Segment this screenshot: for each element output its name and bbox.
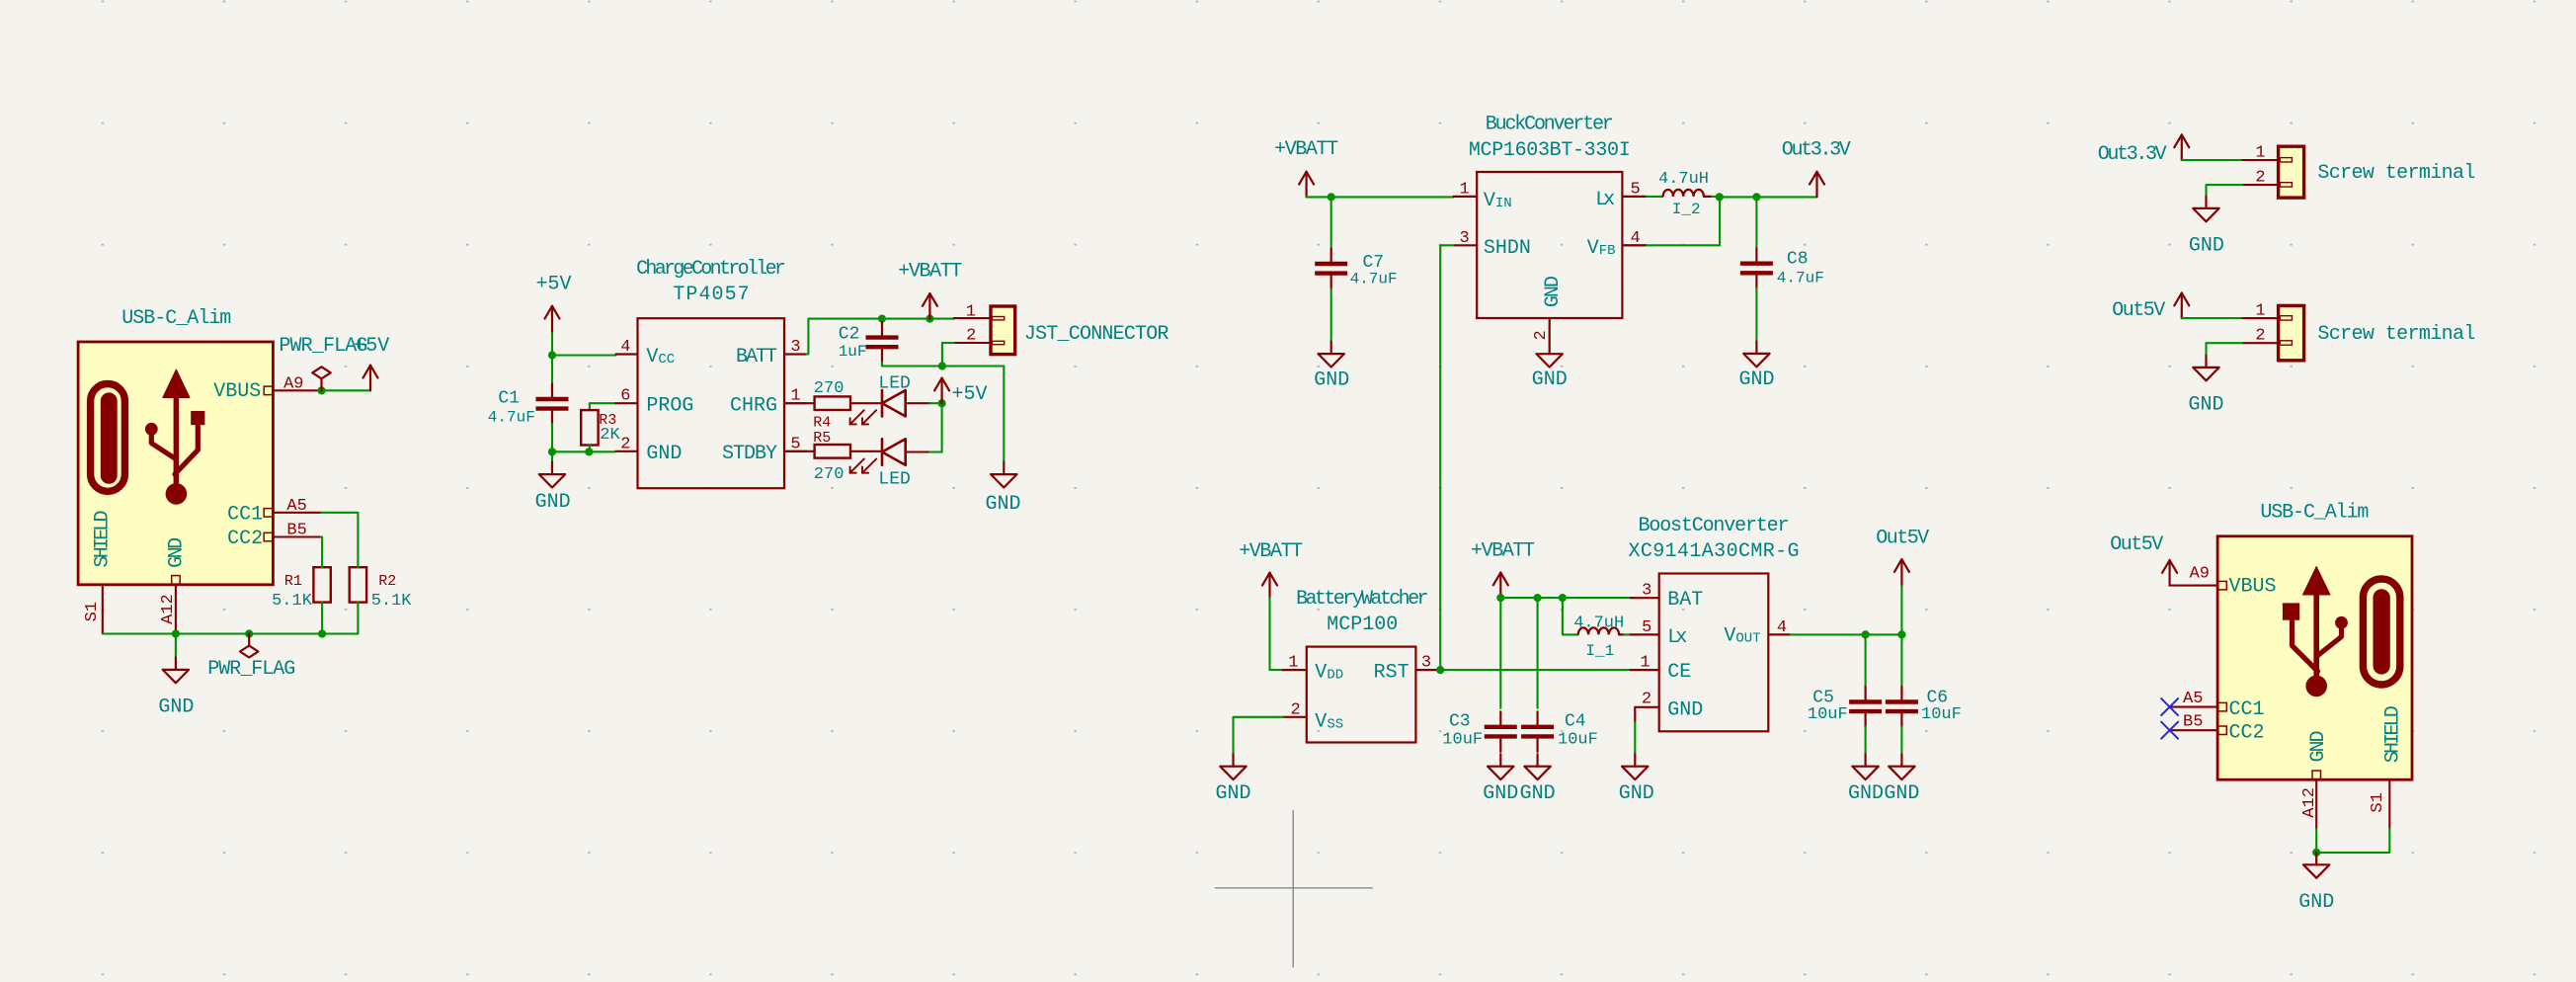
pin label A5 (right) <box>2183 690 2203 708</box>
ground GND (terminal 2) <box>2188 356 2223 417</box>
svg-text:2K: 2K <box>600 426 620 445</box>
wire Out3.3V to terminal1 pin1 <box>2182 159 2279 161</box>
junction C4 node <box>1534 594 1542 602</box>
svg-text:CC2: CC2 <box>227 528 263 550</box>
svg-text:+VBATT: +VBATT <box>1274 138 1338 161</box>
ground GND (JST) <box>985 462 1020 516</box>
pin A12 stub (right) <box>2315 779 2317 829</box>
capacitor C2 1uF <box>839 319 899 367</box>
ground GND (C7) <box>1314 342 1349 392</box>
svg-text:B5: B5 <box>286 522 306 540</box>
wire JST rail to GND <box>1003 367 1005 462</box>
svg-text:Screw terminal: Screw terminal <box>2317 323 2475 346</box>
pin label S1 (right) <box>2369 792 2387 812</box>
svg-text:C3: C3 <box>1449 712 1471 732</box>
svg-text:2: 2 <box>1642 690 1651 708</box>
svg-text:2: 2 <box>1532 330 1551 340</box>
junction R3 bottom node <box>585 448 593 455</box>
ground GND (C8) <box>1738 342 1774 392</box>
svg-text:Lx: Lx <box>1667 626 1687 649</box>
wire C1 to GND <box>551 451 553 461</box>
svg-text:CHRG: CHRG <box>730 394 777 417</box>
svg-text:BATT: BATT <box>736 346 777 368</box>
svg-text:5: 5 <box>1642 618 1651 637</box>
svg-text:2: 2 <box>2255 169 2265 188</box>
wire A12 to GND (right) <box>2315 829 2317 853</box>
svg-text:GND: GND <box>1667 698 1703 721</box>
power symbol Out5V (boost) <box>1876 527 1929 634</box>
svg-text:GND: GND <box>1520 782 1556 805</box>
svg-text:GND: GND <box>1483 782 1518 805</box>
svg-text:SHIELD: SHIELD <box>2382 705 2405 763</box>
svg-text:+5V: +5V <box>952 383 988 406</box>
svg-text:GND: GND <box>158 696 194 719</box>
capacitor C8 4.7uF <box>1740 197 1824 341</box>
svg-text:C4: C4 <box>1565 712 1586 732</box>
svg-text:10uF: 10uF <box>1921 705 1962 724</box>
svg-text:CC1: CC1 <box>227 503 263 526</box>
svg-text:GND: GND <box>646 443 682 465</box>
svg-text:3: 3 <box>1421 654 1431 673</box>
svg-text:1uF: 1uF <box>839 343 867 361</box>
svg-text:S1: S1 <box>83 602 102 621</box>
svg-text:RST: RST <box>1374 662 1409 685</box>
wire CC1 to R2 <box>273 513 358 550</box>
wire SHDN to CE (long) <box>1440 245 1453 670</box>
pin label B5 (right) <box>2183 713 2203 732</box>
svg-text:R5: R5 <box>813 430 831 447</box>
power symbol Out3.3V (buck) <box>1782 138 1851 197</box>
junction L1 node <box>1559 594 1567 602</box>
svg-text:GND: GND <box>1215 782 1250 805</box>
wire CC2 to R1 <box>273 537 322 550</box>
no-connect CC1 (right) <box>2161 698 2217 715</box>
svg-text:GND: GND <box>1619 782 1654 805</box>
svg-text:GND: GND <box>1314 368 1349 391</box>
svg-text:CC1: CC1 <box>2229 698 2265 721</box>
svg-text:5.1K: 5.1K <box>272 592 313 611</box>
crosshair marker <box>1215 810 1373 968</box>
junction A12 node <box>172 629 180 637</box>
LED D1 <box>850 374 942 425</box>
svg-text:USB-C_Alim: USB-C_Alim <box>121 307 231 330</box>
junction VBUS node <box>317 386 325 394</box>
wire +VBATT to VIN <box>1307 196 1454 198</box>
pin label A12 (left) <box>159 594 178 624</box>
svg-text:A5: A5 <box>2183 690 2203 708</box>
svg-text:+5V: +5V <box>535 273 571 295</box>
svg-text:BoostConverter: BoostConverter <box>1639 515 1790 537</box>
junction C8 node <box>1752 193 1760 201</box>
inductor I_1 4.7uH <box>1563 598 1631 660</box>
ground GND (C5) <box>1848 754 1884 805</box>
capacitor C5 10uF <box>1808 634 1882 754</box>
svg-text:S1: S1 <box>2369 792 2387 812</box>
svg-text:R4: R4 <box>813 415 831 432</box>
resistor R2 5.1K <box>350 549 413 633</box>
svg-text:+VBATT: +VBATT <box>1239 540 1303 563</box>
power symbol Out5V (terminal 2) <box>2112 293 2189 323</box>
svg-text:3: 3 <box>790 338 800 357</box>
svg-text:4.7uF: 4.7uF <box>1777 270 1824 287</box>
wire terminal1 pin2 to GND <box>2207 185 2279 196</box>
svg-text:4.7uF: 4.7uF <box>488 409 535 427</box>
svg-text:2: 2 <box>966 327 976 346</box>
IC U4 BuckConverter MCP1603BT-330I <box>1453 114 1646 342</box>
resistor R3 2K <box>581 410 620 451</box>
wire VFB feedback <box>1622 197 1720 245</box>
svg-text:+5V: +5V <box>354 335 389 358</box>
wire +5V rail to Vcc <box>552 354 616 356</box>
power symbol +VBATT (JST) <box>898 261 962 319</box>
capacitor C4 10uF <box>1521 598 1598 752</box>
svg-text:SHIELD: SHIELD <box>91 511 114 568</box>
svg-text:BAT: BAT <box>1667 589 1703 612</box>
ground GND (USB-C left) <box>158 658 194 719</box>
power symbol Out5V (USB-C right) <box>2110 533 2177 586</box>
svg-text:A5: A5 <box>286 497 306 516</box>
pin label A9 (right VBUS) <box>2190 564 2210 583</box>
svg-text:TP4057: TP4057 <box>673 284 749 306</box>
wire L2 to C8/Out3.3V <box>1720 196 1817 198</box>
svg-text:270: 270 <box>814 379 845 398</box>
junction C5 node <box>1862 630 1870 638</box>
wire +VBATT to VDD <box>1270 598 1283 670</box>
svg-text:1: 1 <box>1288 654 1298 673</box>
ground GND (buck pin2) <box>1532 342 1568 391</box>
svg-text:1: 1 <box>1640 654 1650 673</box>
svg-text:10uF: 10uF <box>1442 731 1483 750</box>
connector Screw terminal 1 <box>2255 144 2475 199</box>
IC U1 BatteryWatcher MCP100 <box>1283 588 1438 743</box>
LED D2 <box>850 439 942 489</box>
svg-text:A12: A12 <box>2300 787 2319 818</box>
svg-text:Screw terminal: Screw terminal <box>2317 162 2475 185</box>
svg-text:BuckConverter: BuckConverter <box>1486 114 1614 136</box>
svg-text:2: 2 <box>620 435 630 453</box>
svg-text:CC2: CC2 <box>2229 721 2265 744</box>
capacitor C7 4.7uF <box>1315 197 1397 341</box>
junction C7 node <box>1328 193 1335 201</box>
USB trident logo (right) <box>2283 567 2399 697</box>
ground GND (terminal 1) <box>2189 197 2224 258</box>
svg-text:GND: GND <box>985 493 1020 516</box>
svg-text:B5: B5 <box>2183 713 2203 732</box>
svg-text:MCP1603BT-330I: MCP1603BT-330I <box>1469 139 1631 162</box>
svg-text:4: 4 <box>620 338 630 357</box>
svg-text:4.7uF: 4.7uF <box>1350 270 1398 287</box>
pin label A9 (left VBUS) <box>283 375 303 394</box>
capacitor C6 10uF <box>1886 634 1962 754</box>
wire VOUT to Out5V <box>1768 618 1901 637</box>
IC U3 BoostConverter XC9141A30CMR-G <box>1629 515 1800 731</box>
svg-text:+VBATT: +VBATT <box>898 261 962 284</box>
power symbol +5V (LEDs) <box>934 378 987 406</box>
svg-text:STDBY: STDBY <box>722 443 777 465</box>
ground GND (VSS) <box>1215 754 1250 805</box>
svg-text:270: 270 <box>814 465 845 484</box>
junction C2 top node <box>878 315 886 323</box>
svg-text:XC9141A30CMR-G: XC9141A30CMR-G <box>1629 540 1800 563</box>
wire PROG to R3 <box>590 403 616 410</box>
svg-text:LED: LED <box>878 374 910 394</box>
wire A12 to GND <box>175 634 177 658</box>
power symbol +VBATT (MCP100) <box>1239 540 1303 598</box>
ground GND (C3) <box>1483 754 1518 805</box>
IC U2 ChargeController TP4057 <box>616 258 807 488</box>
svg-text:GND: GND <box>2298 891 2334 914</box>
svg-text:A9: A9 <box>283 375 303 394</box>
ground GND (boost pin2) <box>1619 754 1654 805</box>
svg-text:MCP100: MCP100 <box>1327 614 1398 636</box>
svg-text:GND: GND <box>1848 782 1884 805</box>
svg-text:GND: GND <box>1532 368 1568 391</box>
power symbol +VBATT (buck input) <box>1274 138 1338 197</box>
wire GND rail <box>552 450 615 452</box>
pin label B5 (left CC2) <box>286 522 306 540</box>
svg-text:10uF: 10uF <box>1808 705 1848 724</box>
power flag PWR_FLAG (GND bus) <box>207 634 295 682</box>
svg-text:BatteryWatcher: BatteryWatcher <box>1296 588 1428 611</box>
wire ground bus (USB-C left) <box>103 632 359 634</box>
pin A12 GND stub (left) <box>175 585 177 633</box>
wire S1 to GND (right) <box>2316 829 2389 853</box>
junction +VBATT node (JST) <box>926 315 933 323</box>
power flag PWR_FLAG (VBUS) <box>279 335 367 390</box>
pin label A12 (right) <box>2300 787 2319 818</box>
svg-text:GND: GND <box>1542 276 1565 307</box>
svg-text:ChargeController: ChargeController <box>636 258 786 281</box>
svg-text:PWR_FLAG: PWR_FLAG <box>207 658 295 681</box>
svg-text:GND: GND <box>1884 782 1919 805</box>
svg-text:GND: GND <box>166 537 189 568</box>
capacitor C1 4.7uF <box>488 356 569 452</box>
USB trident logo (left) <box>91 369 204 505</box>
junction R1 node <box>318 629 326 637</box>
wire C2 bottom rail <box>882 365 1004 367</box>
svg-text:2: 2 <box>2255 327 2265 346</box>
svg-text:R2: R2 <box>378 573 396 590</box>
no-connect CC2 (right) <box>2161 722 2217 739</box>
svg-text:Out5V: Out5V <box>2112 299 2165 322</box>
svg-text:GND: GND <box>1738 368 1774 391</box>
wire LED cathodes to +5V <box>941 403 943 451</box>
svg-text:4.7uH: 4.7uH <box>1573 614 1624 633</box>
wire terminal2 pin2 to GND <box>2207 343 2279 355</box>
connector J1 USB-C_Alim (left) <box>78 307 273 585</box>
svg-text:I_2: I_2 <box>1672 201 1701 218</box>
junction C6/Out5V node <box>1897 630 1905 638</box>
wire BATT to C2/JST <box>806 319 953 355</box>
wire JST pin2 to GND rail <box>942 343 954 367</box>
svg-text:Out5V: Out5V <box>2110 533 2163 556</box>
inductor I_2 4.7uH <box>1647 170 1720 218</box>
svg-text:Out3.3V: Out3.3V <box>2098 143 2167 166</box>
svg-text:2: 2 <box>1290 700 1300 719</box>
svg-text:1: 1 <box>1459 180 1469 199</box>
svg-text:1: 1 <box>2255 301 2265 320</box>
wire boost GND pin to ground <box>1634 722 1636 754</box>
svg-text:C2: C2 <box>839 325 860 345</box>
junction LED node <box>938 399 946 407</box>
power symbol +5V (VBUS) <box>354 335 389 390</box>
junction C1 bottom node <box>548 448 556 455</box>
svg-text:VBUS: VBUS <box>213 380 261 403</box>
svg-text:Lx: Lx <box>1595 189 1615 211</box>
power symbol +5V (C1/Vcc) <box>535 273 571 355</box>
ground GND (C6) <box>1884 754 1919 805</box>
svg-text:5.1K: 5.1K <box>371 592 413 611</box>
connector JST_CONNECTOR <box>954 303 1169 355</box>
svg-text:3: 3 <box>1459 229 1469 248</box>
svg-text:USB-C_Alim: USB-C_Alim <box>2260 502 2369 525</box>
svg-text:4: 4 <box>1777 618 1787 637</box>
svg-text:5: 5 <box>1631 180 1641 199</box>
svg-text:Out3.3V: Out3.3V <box>1782 138 1851 161</box>
svg-text:3: 3 <box>1642 582 1651 601</box>
wire Out5V to terminal2 pin1 <box>2182 317 2279 319</box>
svg-text:10uF: 10uF <box>1558 731 1598 750</box>
svg-text:1: 1 <box>2255 144 2265 163</box>
svg-text:GND: GND <box>535 491 571 514</box>
wire +VBATT rail to BAT <box>1500 597 1634 599</box>
svg-text:LED: LED <box>878 469 910 489</box>
connector J2 USB-C_Alim (right) <box>2217 502 2412 780</box>
junction RST node <box>1436 666 1444 674</box>
pin S1 SHIELD stub (left) <box>102 585 104 633</box>
svg-text:GND: GND <box>2188 394 2223 417</box>
pin label A5 (left CC1) <box>286 497 306 516</box>
svg-text:+VBATT: +VBATT <box>1471 540 1535 563</box>
wire VBUS (right) <box>2170 585 2218 587</box>
svg-text:C8: C8 <box>1787 249 1809 269</box>
svg-text:JST_CONNECTOR: JST_CONNECTOR <box>1024 323 1169 346</box>
power symbol Out3.3V (terminal 1) <box>2098 134 2190 166</box>
resistor R1 5.1K <box>272 549 331 633</box>
svg-text:1: 1 <box>966 303 976 322</box>
svg-text:R1: R1 <box>284 573 302 590</box>
svg-text:GND: GND <box>2189 235 2224 258</box>
svg-text:A9: A9 <box>2190 564 2210 583</box>
svg-text:C1: C1 <box>498 389 520 409</box>
svg-text:I_1: I_1 <box>1585 642 1614 660</box>
wire RST to CE <box>1438 669 1631 671</box>
resistor R5 270 <box>784 430 882 484</box>
junction +5V/Vcc node <box>548 351 556 359</box>
junction L2 output node <box>1716 193 1724 201</box>
svg-text:A12: A12 <box>159 594 178 624</box>
svg-text:PROG: PROG <box>646 394 693 417</box>
wire VBUS to +5V <box>273 389 370 391</box>
pin S1 stub (right) <box>2388 779 2390 829</box>
junction C2 bottom node <box>938 362 946 369</box>
connector Screw terminal 2 <box>2255 301 2475 360</box>
wire VSS to GND <box>1234 717 1283 755</box>
svg-text:4.7uH: 4.7uH <box>1658 170 1709 189</box>
capacitor C3 10uF <box>1442 598 1517 752</box>
junction GND node (right) <box>2312 849 2320 857</box>
ground GND (USB-C right) <box>2298 853 2334 914</box>
ground GND (C1) <box>535 462 571 514</box>
ground GND (C4) <box>1520 754 1556 805</box>
svg-text:SHDN: SHDN <box>1484 237 1531 260</box>
svg-text:CE: CE <box>1667 661 1691 684</box>
junction C3 node <box>1496 594 1504 602</box>
svg-text:6: 6 <box>620 387 630 406</box>
pin label S1 (left) <box>83 602 102 621</box>
svg-text:VBUS: VBUS <box>2229 576 2277 599</box>
svg-text:GND: GND <box>2307 731 2330 763</box>
junction PWR_FLAG node <box>245 629 253 637</box>
power symbol +VBATT (boost input) <box>1471 540 1535 599</box>
svg-text:Out5V: Out5V <box>1876 527 1929 549</box>
resistor R4 270 <box>784 379 882 432</box>
